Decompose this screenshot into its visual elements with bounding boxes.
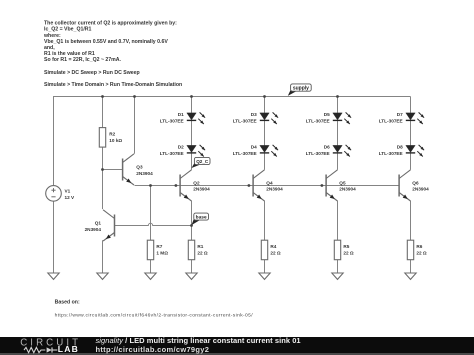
wire: R5 bottom to ground [337, 260, 339, 273]
label D5 value LTL-307EE [306, 118, 330, 123]
label Q1 value 2N3904 [85, 227, 102, 232]
resistor R1 [188, 240, 194, 260]
wire: string 4 link D7 cathode to D8 anode [410, 121, 412, 145]
svg-text:R7: R7 [156, 244, 162, 249]
svg-text:https://www.circuitlab.com/cir: https://www.circuitlab.com/circuit/f646v… [55, 313, 254, 319]
svg-text:So for R1 = 22R, Ic_Q2 ~ 27mA.: So for R1 = 22R, Ic_Q2 ~ 27mA. [44, 57, 122, 63]
junction: supply rail / Q3 collector [133, 95, 136, 98]
label R5 name [343, 244, 349, 249]
annotation: source circuit URL [55, 313, 254, 319]
label D6 name [324, 144, 330, 149]
label D3 value LTL-307EE [233, 118, 257, 123]
junction: base drive line / Q2 base [175, 184, 178, 187]
transistor Q1 2N3904 [103, 210, 114, 241]
label Q3 value 2N3904 [136, 171, 153, 176]
svg-text:supply: supply [293, 86, 309, 92]
wire: left rail from supply rail down to V1 plus terminal [53, 96, 55, 186]
svg-text:base: base [196, 214, 207, 220]
label R6 name [416, 244, 422, 249]
junction: supply rail / string 2 [263, 95, 266, 98]
resistor R6 [407, 240, 413, 260]
label Q1 name [95, 220, 102, 225]
label Q2 value 2N3904 [193, 187, 210, 192]
svg-text:Q1: Q1 [95, 220, 102, 225]
svg-text:The collector current of Q2 is: The collector current of Q2 is approxima… [44, 21, 177, 27]
LED D5 LTL-307EE [333, 112, 351, 124]
wire: string 1 anode riser from supply rail [191, 97, 193, 113]
svg-text:22 Ω: 22 Ω [197, 250, 208, 255]
svg-text:Simulate > Time Domain > Run T: Simulate > Time Domain > Run Time-Domain… [44, 82, 182, 88]
label R5 value 22 Ohm [343, 250, 354, 255]
label D2 name [178, 144, 184, 149]
CircuitLab logo: resistor zigzag [24, 347, 45, 352]
junction: supply rail / string 3 [336, 95, 339, 98]
svg-text:2N3904: 2N3904 [85, 227, 102, 232]
annotation: Based on note [55, 299, 80, 305]
wire: string 2 cathode down to transistor collector [264, 153, 266, 169]
ground (R5) [332, 273, 343, 279]
label Q5 name [339, 180, 346, 185]
junction: supply rail / R2 [101, 95, 104, 98]
svg-text:D5: D5 [324, 112, 330, 117]
svg-text:Vbe_Q1 is between 0.55V and 0.: Vbe_Q1 is between 0.55V and 0.7V, nomina… [44, 39, 168, 45]
label D1 value LTL-307EE [160, 118, 184, 123]
label R4 value 22 Ohm [270, 250, 281, 255]
CircuitLab logo: CIRCUIT wordmark [20, 338, 81, 349]
wire: string 2 link D3 cathode to D4 anode [264, 121, 266, 145]
ground (Q1 emitter) [97, 273, 108, 279]
svg-text:LAB: LAB [58, 344, 79, 354]
wire: R1 bottom to ground [191, 260, 193, 273]
wire: R4 bottom to ground [264, 260, 266, 273]
footer bar [0, 337, 474, 353]
transistor Q4 2N3904 [253, 170, 264, 201]
wire: string 4 anode riser from supply rail [410, 97, 412, 113]
net flag: base [192, 213, 209, 225]
label D8 value LTL-307EE [379, 151, 403, 156]
wire: Q1 base to sense node (hops over R7 branch) [115, 223, 192, 225]
label D4 value LTL-307EE [233, 151, 257, 156]
footer caption text [96, 336, 301, 355]
wire: supply rail down to Q3 collector [134, 97, 136, 154]
label R2 value 10 kOhm [109, 138, 122, 143]
label R1 name [197, 244, 203, 249]
svg-text:LTL-307EE: LTL-307EE [160, 151, 184, 156]
resistor R7 [147, 240, 153, 260]
transistor Q3 2N3904 [123, 154, 134, 185]
resistor R4 [261, 240, 267, 260]
junction: supply rail / string 1 [190, 95, 193, 98]
wire: R7 bottom to ground [150, 260, 152, 273]
wire: Q5 emitter down to R5 top [337, 201, 339, 240]
ground (R4) [259, 273, 270, 279]
net flag: supply [288, 84, 311, 96]
label Q6 value 2N3904 [412, 187, 429, 192]
svg-text:Q4: Q4 [266, 180, 273, 185]
svg-text:R1: R1 [197, 244, 203, 249]
svg-text:2N3904: 2N3904 [412, 187, 429, 192]
label R1 value 22 Ohm [197, 250, 208, 255]
label Q2 name [193, 180, 200, 185]
svg-text:LTL-307EE: LTL-307EE [379, 151, 403, 156]
voltage source V1 [46, 186, 62, 202]
LED D4 LTL-307EE [260, 145, 278, 157]
wire: base drive line (Q3 emitter to Q2/Q4/Q5/Q6 bases) [135, 185, 400, 187]
resistor R5 [334, 240, 340, 260]
label R2 name [109, 131, 115, 136]
net flag: Q2_C [192, 157, 211, 168]
wire: base drive line down to R7 top [150, 186, 152, 241]
junction: node R2 / Q3 base / Q1 collector [101, 168, 104, 171]
label D5 name [324, 112, 330, 117]
wire: Q1 emitter down to ground [102, 240, 104, 273]
svg-text:LTL-307EE: LTL-307EE [306, 151, 330, 156]
wire: sense node down to R1 top [191, 226, 193, 241]
svg-text:LTL-307EE: LTL-307EE [306, 118, 330, 123]
LED D7 LTL-307EE [406, 112, 424, 124]
svg-text:2N3904: 2N3904 [193, 187, 210, 192]
LED D1 LTL-307EE [187, 112, 205, 124]
wire: string 2 anode riser from supply rail [264, 97, 266, 113]
label D8 name [397, 144, 403, 149]
svg-text:LTL-307EE: LTL-307EE [233, 151, 257, 156]
label D2 value LTL-307EE [160, 151, 184, 156]
wire: Q2 emitter down to sense node [191, 201, 193, 226]
label R4 name [270, 244, 276, 249]
svg-text:D1: D1 [178, 112, 184, 117]
svg-text:R4: R4 [270, 244, 276, 249]
LED D6 LTL-307EE [333, 145, 351, 157]
wire: string 1 cathode down to transistor collector [191, 153, 193, 169]
svg-text:D3: D3 [251, 112, 257, 117]
wire: string 1 link D1 cathode to D2 anode [191, 121, 193, 145]
annotation: circuit description notes [43, 21, 182, 89]
svg-text:D6: D6 [324, 144, 330, 149]
wire: supply rail down to R2 top [102, 97, 104, 128]
svg-text:D2: D2 [178, 144, 184, 149]
svg-text:2N3904: 2N3904 [339, 187, 356, 192]
wire: supply rail [54, 96, 411, 98]
svg-text:22 Ω: 22 Ω [343, 250, 354, 255]
junction: sense node (Q1 base / Q2 emitter / R1) [190, 224, 193, 227]
wire: R6 bottom to ground [410, 260, 412, 273]
svg-text:12 V: 12 V [65, 195, 76, 200]
wire: Q4 emitter down to R4 top [264, 201, 266, 240]
svg-text:D4: D4 [251, 144, 257, 149]
label D7 name [397, 112, 403, 117]
resistor R2 [99, 128, 105, 148]
svg-text:2N3904: 2N3904 [136, 171, 153, 176]
ground (R1) [186, 273, 197, 279]
junction: base drive line / Q5 base [321, 184, 324, 187]
svg-text:Ic_Q2 = Vbe_Q1/R1: Ic_Q2 = Vbe_Q1/R1 [44, 27, 92, 33]
label Q4 value 2N3904 [266, 187, 283, 192]
label R7 value 1 MOhm [156, 250, 168, 255]
label D6 value LTL-307EE [306, 151, 330, 156]
ground (V1) [48, 273, 59, 279]
svg-text:2N3904: 2N3904 [266, 187, 283, 192]
svg-text:and,: and, [44, 45, 55, 51]
svg-text:Q2: Q2 [193, 180, 200, 185]
svg-text:R2: R2 [109, 131, 115, 136]
svg-text:V1: V1 [65, 189, 71, 194]
svg-text:Q6: Q6 [412, 180, 419, 185]
svg-text:R6: R6 [416, 244, 422, 249]
CircuitLab logo: LAB wordmark [58, 344, 79, 354]
wire: string 3 cathode down to transistor collector [337, 153, 339, 169]
svg-text:Based on:: Based on: [55, 299, 80, 305]
svg-text:LTL-307EE: LTL-307EE [379, 118, 403, 123]
svg-text:D8: D8 [397, 144, 403, 149]
label Q3 name [136, 165, 143, 170]
svg-text:LTL-307EE: LTL-307EE [160, 118, 184, 123]
svg-text:LTL-307EE: LTL-307EE [233, 118, 257, 123]
svg-text:Q5: Q5 [339, 180, 346, 185]
label V1 name [65, 189, 71, 194]
svg-text:Q2_C: Q2_C [196, 159, 209, 164]
transistor Q2 2N3904 [180, 170, 191, 201]
wire: string 4 cathode down to transistor collector [410, 153, 412, 169]
LED D8 LTL-307EE [406, 145, 424, 157]
wire: string 3 link D5 cathode to D6 anode [337, 121, 339, 145]
svg-text:R5: R5 [343, 244, 349, 249]
wire: Q3 base wire [103, 169, 123, 171]
junction: base drive line / R7 branch [149, 184, 152, 187]
label R7 name [156, 244, 162, 249]
label D1 name [178, 112, 184, 117]
wire: R2 bottom to node Q3-base/Q1-collector [102, 147, 104, 169]
label V1 value 12 V [65, 195, 76, 200]
LED D3 LTL-307EE [260, 112, 278, 124]
label R6 value 22 Ohm [416, 250, 427, 255]
svg-text:R1 is the value of R1: R1 is the value of R1 [44, 51, 95, 57]
svg-text:22 Ω: 22 Ω [416, 250, 427, 255]
svg-text:Q3: Q3 [136, 165, 143, 170]
CircuitLab logo: diode symbol [47, 347, 58, 352]
label D7 value LTL-307EE [379, 118, 403, 123]
svg-text:Simulate > DC Sweep > Run DC S: Simulate > DC Sweep > Run DC Sweep [44, 70, 140, 76]
label D3 name [251, 112, 257, 117]
junction: base drive line / Q4 base [248, 184, 251, 187]
label D4 name [251, 144, 257, 149]
wire: V1 minus terminal down to ground [53, 201, 55, 273]
svg-text:1 MΩ: 1 MΩ [156, 250, 168, 255]
LED D2 LTL-307EE [187, 145, 205, 157]
wire: string 3 anode riser from supply rail [337, 97, 339, 113]
transistor Q6 2N3904 [399, 170, 410, 201]
ground (R7) [145, 273, 156, 279]
label Q4 name [266, 180, 273, 185]
ground (R6) [405, 273, 416, 279]
svg-text:D7: D7 [397, 112, 403, 117]
wire: Q6 emitter down to R6 top [410, 201, 412, 240]
wire: node down to Q1 collector [102, 170, 104, 210]
svg-text:where:: where: [43, 33, 61, 39]
label Q6 name [412, 180, 419, 185]
svg-text:10 kΩ: 10 kΩ [109, 138, 122, 143]
label Q5 value 2N3904 [339, 187, 356, 192]
svg-text:22 Ω: 22 Ω [270, 250, 281, 255]
transistor Q5 2N3904 [326, 170, 337, 201]
